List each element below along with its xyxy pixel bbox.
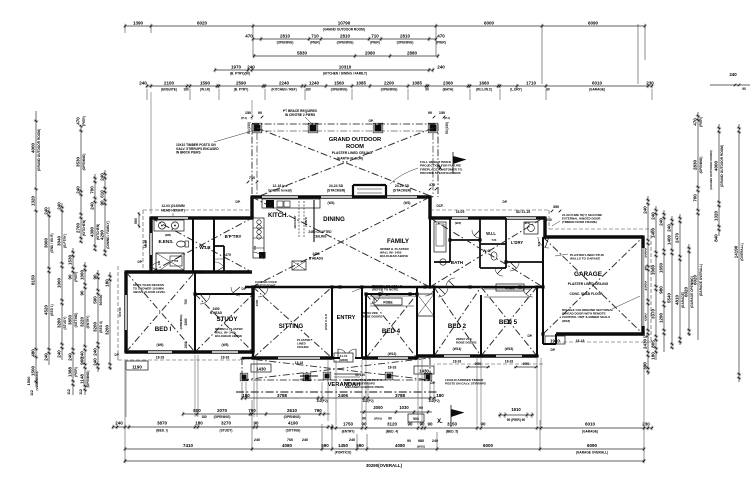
svg-text:DP.: DP.: [242, 287, 247, 291]
svg-text:1190: 1190: [132, 364, 142, 369]
svg-text:1750: 1750: [343, 422, 354, 427]
svg-text:470: 470: [429, 183, 435, 187]
svg-text:(KITCHEN / DINING / FAMILY): (KITCHEN / DINING / FAMILY): [323, 72, 367, 76]
svg-text:1590: 1590: [200, 80, 211, 85]
svg-text:4290: 4290: [99, 229, 104, 240]
svg-text:2360: 2360: [443, 80, 454, 85]
svg-text:B'HEADS: B'HEADS: [309, 257, 323, 261]
right dim wc: [658, 210, 666, 352]
svg-text:PLASTER LINED CEILING: PLASTER LINED CEILING: [568, 282, 609, 286]
svg-text:30290(OVERALL): 30290(OVERALL): [366, 463, 403, 468]
svg-text:240: 240: [43, 353, 48, 361]
svg-text:240: 240: [247, 64, 255, 69]
svg-text:(STUDY): (STUDY): [220, 429, 233, 433]
svg-text:(REFER TO NOTE): (REFER TO NOTE): [372, 288, 398, 292]
svg-text:2810: 2810: [340, 33, 351, 38]
svg-text:180: 180: [104, 279, 109, 287]
svg-text:(W5): (W5): [222, 343, 229, 347]
verandah posts: [242, 375, 247, 380]
window ens left: [149, 233, 152, 255]
svg-text:980: 980: [418, 439, 424, 443]
svg-text:112(PJ): 112(PJ): [316, 399, 327, 403]
window 12-18 kitchen: [262, 195, 298, 198]
svg-text:840: 840: [713, 234, 718, 242]
svg-text:240: 240: [92, 348, 97, 356]
svg-text:(BED. I): (BED. I): [156, 429, 168, 433]
section flag X top: [438, 152, 466, 174]
svg-text:710: 710: [249, 176, 255, 180]
left dim short lower: [104, 272, 112, 370]
svg-text:1030: 1030: [399, 405, 409, 410]
pier dims right: [428, 111, 450, 134]
svg-text:3260: 3260: [104, 324, 109, 335]
svg-text:3788: 3788: [395, 393, 406, 398]
svg-text:(OPENING): (OPENING): [397, 41, 414, 45]
garage dims below: [545, 336, 584, 352]
svg-text:bottom reveal): bottom reveal): [268, 189, 291, 193]
svg-text:6020: 6020: [683, 286, 688, 297]
svg-text:2000: 2000: [373, 405, 383, 410]
left dim pier-opening upper: [75, 116, 86, 243]
svg-text:2590: 2590: [236, 80, 247, 85]
svg-text:(KITCHEN / REF): (KITCHEN / REF): [271, 88, 296, 92]
svg-text:18-18: 18-18: [388, 366, 397, 370]
door wil: [472, 230, 480, 238]
door bptry: [231, 287, 240, 296]
svg-text:240: 240: [67, 353, 72, 361]
svg-text:DP.: DP.: [138, 260, 143, 264]
svg-text:2/020 C.S.D: 2/020 C.S.D: [324, 313, 328, 330]
svg-text:390: 390: [642, 362, 647, 370]
door study: [200, 294, 210, 304]
svg-text:CEILING: CEILING: [314, 235, 327, 239]
svg-text:DP.: DP.: [551, 348, 556, 352]
boxed dim 1430 bed4: [414, 366, 434, 374]
svg-text:240: 240: [75, 186, 80, 194]
svg-text:750: 750: [174, 259, 179, 263]
svg-text:IN BRICK PIERS: IN BRICK PIERS: [176, 151, 201, 155]
svg-text:590: 590: [356, 443, 364, 448]
svg-text:(ENS / W.I.R): (ENS / W.I.R): [50, 233, 54, 252]
svg-text:18-18: 18-18: [156, 356, 165, 360]
svg-text:(B. PTRY): (B. PTRY): [234, 88, 249, 92]
svg-text:DP.: DP.: [503, 200, 508, 204]
dim 590 ens wall: [134, 212, 140, 228]
svg-text:14190: 14190: [733, 245, 738, 258]
svg-text:2810: 2810: [400, 33, 411, 38]
svg-text:(PORTICO): (PORTICO): [335, 450, 352, 454]
svg-text:230: 230: [646, 80, 654, 85]
svg-text:610: 610: [99, 190, 104, 198]
door wir: [215, 262, 225, 272]
svg-text:18-18: 18-18: [295, 361, 304, 365]
svg-text:2406: 2406: [338, 393, 349, 398]
svg-text:6010: 6010: [592, 80, 603, 85]
window bed4 front: [378, 356, 408, 359]
bed4 walls: [362, 287, 417, 358]
garage walls: [543, 237, 643, 344]
svg-text:(VERANDAH): (VERANDAH): [35, 372, 39, 391]
front door double: [338, 349, 356, 358]
window labels top wall: [268, 184, 411, 205]
left bottom verandah note: [26, 372, 39, 391]
svg-text:CEILING: CEILING: [297, 345, 309, 349]
entry porch step: [334, 353, 365, 377]
svg-text:12-18 (no: 12-18 (no: [273, 184, 288, 188]
svg-text:GARAGE: GARAGE: [574, 271, 603, 278]
svg-text:1060: 1060: [79, 269, 84, 280]
svg-text:(W14): (W14): [453, 347, 462, 351]
svg-text:2080: 2080: [365, 50, 376, 55]
rotated interior dims: [179, 299, 259, 348]
door arcs hallway: [382, 290, 434, 296]
svg-text:GROCERY: GROCERY: [293, 215, 297, 228]
entry side walls: [332, 287, 362, 358]
svg-text:(OPENING): (OPENING): [337, 41, 354, 45]
outdoor room pier P3: [375, 125, 382, 132]
svg-text:700: 700: [89, 186, 94, 194]
svg-text:(PJ): (PJ): [241, 116, 247, 120]
right dim garage: [674, 214, 685, 345]
right dim 5540: [666, 216, 674, 349]
family right wall: [428, 197, 431, 287]
svg-text:18-18: 18-18: [221, 356, 230, 360]
dining family ceiling X: [252, 197, 430, 287]
svg-text:3220: 3220: [79, 316, 84, 327]
svg-text:240: 240: [642, 206, 647, 214]
svg-text:760: 760: [287, 438, 293, 442]
main block bottom wall: [245, 286, 543, 288]
svg-text:(STACKER): (STACKER): [327, 189, 345, 193]
bed5 ceiling X: [481, 287, 537, 356]
svg-text:240: 240: [89, 202, 94, 210]
svg-text:900 90: 900 90: [118, 307, 122, 317]
svg-text:90: 90: [99, 200, 104, 206]
right dim pier: [692, 112, 703, 340]
door bed2: [438, 287, 448, 297]
svg-text:3870: 3870: [157, 420, 168, 425]
svg-text:(PIER): (PIER): [82, 116, 86, 126]
bed4 robe: [370, 296, 414, 306]
svg-text:(TIMBER DOOR FRAME): (TIMBER DOOR FRAME): [562, 220, 597, 224]
svg-text:1320: 1320: [713, 210, 718, 221]
left dim overall: [30, 111, 41, 387]
dim 350 garage: [546, 205, 561, 222]
svg-text:(W8): (W8): [165, 233, 171, 237]
bed1-study divider: [194, 272, 196, 352]
garage entry door: [538, 237, 549, 248]
outdoor room diagonals: [257, 128, 433, 197]
svg-text:ENCASED IN BRICK PIERS: ENCASED IN BRICK PIERS: [345, 385, 384, 389]
garage door opening: [641, 248, 644, 326]
window labels front: [156, 343, 514, 370]
boxed dim 950 bed5: [514, 361, 538, 368]
svg-text:BATH: BATH: [451, 260, 464, 265]
wall between wing and bed1: [126, 270, 252, 273]
svg-text:1290: 1290: [658, 312, 663, 323]
svg-text:(L.DRY): (L.DRY): [510, 88, 522, 92]
witness lines bottom: [125, 360, 644, 461]
bed1 block left wall: [124, 272, 127, 352]
svg-text:ROBE DOORS: ROBE DOORS: [456, 341, 477, 345]
svg-text:(OVERALL): (OVERALL): [740, 243, 744, 260]
svg-text:BED 2: BED 2: [448, 323, 467, 330]
svg-text:1660: 1660: [479, 80, 490, 85]
svg-text:STUDY: STUDY: [217, 316, 239, 323]
svg-text:(W13): (W13): [388, 352, 397, 356]
ens shower: [156, 253, 184, 270]
svg-text:DP.: DP.: [236, 200, 241, 204]
outdoor room pier P4: [430, 125, 437, 132]
svg-text:112: 112: [67, 389, 71, 395]
witness drops from top dims: [147, 89, 652, 214]
svg-text:2810: 2810: [280, 33, 291, 38]
svg-text:BED I: BED I: [155, 326, 172, 333]
svg-text:90: 90: [407, 422, 413, 427]
ens vanity: [154, 220, 184, 231]
eaves dashed outline: [118, 210, 651, 364]
svg-text:2760: 2760: [75, 222, 80, 233]
svg-text:(GRAND OUTDOOR ROOM): (GRAND OUTDOOR ROOM): [37, 129, 41, 171]
door bath: [446, 278, 455, 287]
svg-text:1320: 1320: [30, 195, 35, 206]
door bed4: [370, 294, 380, 304]
svg-text:3060: 3060: [43, 237, 48, 248]
svg-text:IN CENTRE 2 PIERS: IN CENTRE 2 PIERS: [285, 113, 315, 117]
svg-text:2430: 2430: [642, 338, 647, 349]
svg-text:(ENSUITE): (ENSUITE): [161, 88, 177, 92]
left dim kitchen upper: [89, 174, 100, 251]
svg-text:3120: 3120: [387, 422, 398, 427]
svg-text:BED 4: BED 4: [382, 328, 401, 335]
svg-text:(BATH): (BATH): [443, 88, 454, 92]
svg-text:BULKHEAD ABOVE: BULKHEAD ABOVE: [380, 254, 408, 258]
svg-text:(BED 1): (BED 1): [50, 304, 54, 316]
svg-text:90 (150): 90 (150): [247, 122, 251, 134]
right wing ceiling X: [430, 218, 543, 287]
svg-text:240: 240: [666, 224, 671, 232]
svg-text:3280: 3280: [56, 317, 61, 328]
study ceiling X: [195, 294, 253, 352]
svg-text:180: 180: [305, 88, 311, 92]
svg-text:6020: 6020: [197, 20, 208, 25]
svg-text:(STACKER): (STACKER): [393, 189, 411, 193]
svg-text:(PIER): (PIER): [74, 367, 78, 377]
svg-text:350: 350: [553, 205, 559, 209]
svg-text:(B.PTRY): (B.PTRY): [63, 234, 67, 248]
dim 470 wir: [214, 253, 231, 259]
svg-text:2470: 2470: [674, 232, 679, 243]
svg-text:4520: 4520: [43, 304, 48, 315]
svg-text:2880: 2880: [407, 50, 418, 55]
garage ceiling X: [543, 237, 643, 334]
svg-text:240: 240: [99, 173, 104, 181]
svg-text:1430: 1430: [256, 366, 266, 371]
svg-text:2240: 2240: [279, 80, 290, 85]
svg-text:(R50): (R50): [374, 417, 382, 421]
right wing partitions: [434, 218, 543, 268]
door wc: [495, 268, 503, 276]
svg-text:(OPENING): (OPENING): [381, 88, 398, 92]
svg-text:4810: 4810: [674, 294, 679, 305]
door ldry: [510, 262, 519, 271]
svg-text:18-18: 18-18: [505, 360, 514, 364]
svg-text:X.: X.: [437, 419, 443, 425]
svg-text:18-18: 18-18: [453, 360, 462, 364]
svg-text:B'HEAD: B'HEAD: [210, 311, 223, 315]
left dim sitting lower: [67, 248, 78, 395]
right dim laundry: [650, 206, 658, 360]
svg-text:(W18): (W18): [562, 319, 570, 323]
dim row rooms right: [331, 422, 654, 434]
svg-text:2080: 2080: [184, 318, 188, 325]
verandah boundary: [236, 358, 438, 392]
sitting ceiling X: [253, 287, 332, 358]
svg-text:2610: 2610: [287, 408, 298, 413]
svg-text:90: 90: [480, 422, 486, 427]
svg-text:470: 470: [245, 33, 253, 38]
svg-text:710: 710: [371, 33, 379, 38]
svg-text:(W1): (W1): [524, 221, 531, 225]
svg-text:18-18: 18-18: [144, 240, 148, 248]
svg-text:3270: 3270: [221, 420, 232, 425]
svg-text:4390: 4390: [89, 226, 94, 237]
boxed dim 950 bed2: [466, 361, 490, 368]
svg-text:KITCH.: KITCH.: [268, 213, 288, 219]
svg-text:1085: 1085: [412, 80, 423, 85]
svg-text:240: 240: [729, 72, 737, 77]
svg-text:SD 21-15: SD 21-15: [516, 210, 530, 214]
svg-text:(OPENING): (OPENING): [86, 371, 90, 388]
dim row outdoor piers: [245, 33, 446, 44]
svg-text:240: 240: [349, 438, 355, 442]
svg-text:90: 90: [419, 422, 425, 427]
svg-text:15-09: 15-09: [456, 210, 465, 214]
svg-text:240: 240: [115, 420, 123, 425]
svg-text:OP.: OP.: [368, 119, 373, 123]
svg-text:3040: 3040: [56, 235, 61, 246]
svg-text:8150: 8150: [30, 274, 35, 285]
svg-text:2450: 2450: [312, 252, 319, 256]
svg-text:700: 700: [692, 194, 697, 202]
svg-text:240: 240: [302, 438, 308, 442]
svg-text:DCF.: DCF.: [436, 204, 443, 208]
door sitting: [258, 287, 268, 297]
bed1 study bottom wall: [126, 350, 253, 353]
svg-text:1060: 1060: [56, 277, 61, 288]
door ens: [150, 262, 160, 272]
svg-text:1148: 1148: [79, 374, 84, 384]
dim row overall-bottom: [124, 459, 646, 463]
right dim overall: [733, 124, 744, 382]
svg-text:10790: 10790: [338, 20, 351, 25]
svg-text:90: 90: [92, 274, 97, 280]
svg-text:(GARAGE OVERALL): (GARAGE OVERALL): [576, 450, 608, 454]
svg-text:(B. PTRY)(90): (B. PTRY)(90): [230, 72, 250, 76]
svg-text:DP.: DP.: [115, 353, 120, 357]
svg-text:180: 180: [183, 88, 189, 92]
svg-text:470: 470: [225, 253, 231, 257]
svg-text:240: 240: [139, 80, 147, 85]
dim row 5830: [253, 50, 440, 58]
svg-text:800: 800: [193, 408, 201, 413]
svg-text:(W15): (W15): [505, 347, 514, 351]
svg-text:(KITCHEN): (KITCHEN): [82, 220, 86, 236]
svg-text:1530: 1530: [67, 254, 72, 265]
witness drops bottom extra: [126, 355, 541, 425]
svg-text:240: 240: [92, 358, 97, 366]
ens toilet: [177, 241, 186, 247]
svg-text:(GARAGE): (GARAGE): [589, 88, 605, 92]
window sitting front: [278, 356, 320, 359]
small dims under rooms: [254, 438, 438, 449]
kitchen left wall: [250, 197, 253, 218]
svg-text:1400: 1400: [666, 234, 671, 245]
dp labels: [115, 200, 649, 385]
dim row room widths: [139, 80, 654, 91]
svg-text:BULKHEAD ABOVE: BULKHEAD ABOVE: [215, 334, 242, 338]
svg-text:180: 180: [436, 393, 444, 398]
svg-text:5540: 5540: [666, 292, 671, 303]
svg-text:960: 960: [79, 357, 84, 365]
svg-text:240: 240: [56, 350, 61, 358]
verandah diagonals: [242, 358, 430, 380]
svg-text:3850: 3850: [67, 314, 72, 325]
svg-text:1910: 1910: [550, 338, 560, 343]
svg-text:950: 950: [523, 361, 530, 366]
svg-text:6090: 6090: [588, 20, 599, 25]
svg-text:180: 180: [650, 352, 655, 360]
svg-text:90: 90: [546, 88, 550, 92]
svg-text:(W3): (W3): [404, 201, 411, 205]
svg-text:180: 180: [242, 393, 250, 398]
svg-text:7410: 7410: [183, 443, 194, 448]
ens wing top wall: [151, 216, 252, 219]
svg-text:(BED. 5): (BED. 5): [446, 430, 458, 434]
svg-text:(EARTH FLOOR): (EARTH FLOOR): [337, 157, 363, 161]
svg-text:1390: 1390: [133, 20, 144, 25]
svg-text:112: 112: [79, 389, 83, 395]
svg-text:ABOVE: ABOVE: [300, 378, 310, 382]
svg-text:12-03 (2120MM: 12-03 (2120MM: [161, 204, 185, 208]
svg-text:3150: 3150: [447, 422, 458, 427]
study right wall: [251, 287, 254, 352]
svg-text:E.ENS.: E.ENS.: [158, 239, 173, 244]
svg-text:1910: 1910: [511, 407, 521, 412]
hall linen: [417, 294, 434, 316]
svg-text:240: 240: [658, 218, 663, 226]
bed5 walls: [481, 287, 537, 356]
ens wing left wall: [149, 218, 152, 272]
svg-text:500: 500: [92, 296, 97, 304]
svg-text:6010: 6010: [585, 422, 596, 427]
svg-text:470: 470: [75, 117, 80, 125]
bed4 ceiling X: [366, 294, 417, 358]
svg-text:ROBE: ROBE: [505, 287, 514, 291]
svg-text:90 (PIER) 90: 90 (PIER) 90: [507, 418, 526, 422]
svg-text:(W6): (W6): [157, 343, 164, 347]
svg-text:90: 90: [79, 290, 84, 296]
dim row rooms left: [112, 420, 334, 432]
bath tub: [434, 222, 446, 252]
window 24-24 stacker right: [387, 195, 417, 198]
svg-text:90/9/90: 90/9/90: [99, 294, 103, 305]
svg-text:(GARAGE): (GARAGE): [582, 430, 598, 434]
svg-text:5830: 5830: [297, 50, 308, 55]
svg-text:710: 710: [311, 33, 319, 38]
svg-text:90 440: 90 440: [355, 373, 365, 377]
svg-text:DP.: DP.: [431, 381, 436, 385]
